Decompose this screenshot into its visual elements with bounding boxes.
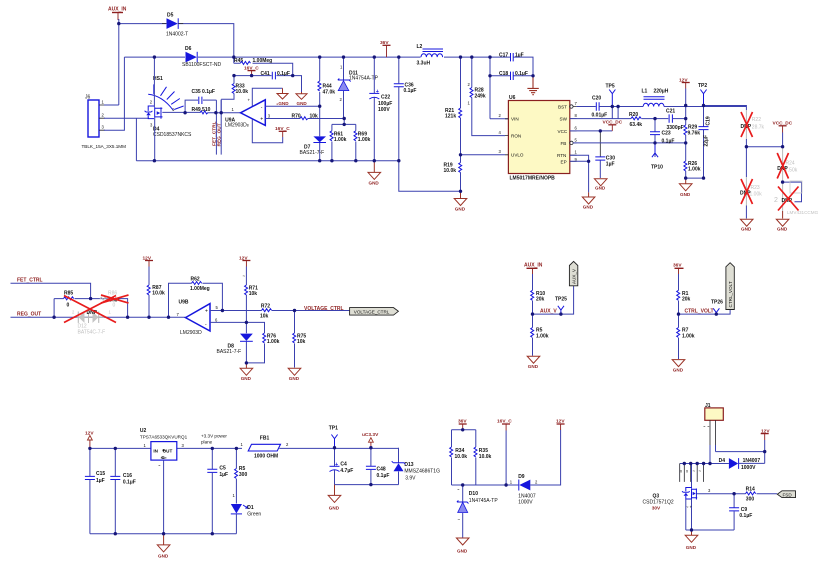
zener D13 bbox=[392, 448, 440, 485]
ground earth (C17/C18) bbox=[527, 76, 538, 95]
zener D11 bbox=[338, 57, 379, 118]
resistor R70 bbox=[292, 114, 345, 120]
wire FB line bbox=[573, 119, 686, 157]
diode D9 bbox=[510, 430, 561, 506]
svg-text:1: 1 bbox=[109, 309, 112, 314]
svg-text:1.00k: 1.00k bbox=[334, 137, 347, 143]
svg-text:~: ~ bbox=[458, 517, 461, 522]
svg-text:1: 1 bbox=[340, 65, 343, 70]
svg-text:GND: GND bbox=[457, 548, 468, 553]
svg-text:R72: R72 bbox=[261, 303, 270, 309]
capacitor C22 bbox=[369, 57, 392, 161]
svg-text:LM2903D: LM2903D bbox=[180, 330, 202, 336]
resistor R14 bbox=[746, 487, 756, 503]
svg-text:5: 5 bbox=[575, 137, 578, 142]
svg-text:3: 3 bbox=[708, 488, 711, 493]
port tag FSD bbox=[777, 491, 795, 498]
svg-text:2: 2 bbox=[340, 97, 343, 102]
capacitor C9 bbox=[729, 494, 752, 530]
diode D7 bbox=[300, 106, 327, 161]
svg-text:0.01µF: 0.01µF bbox=[592, 113, 608, 119]
svg-text:MMSZ4686T1G: MMSZ4686T1G bbox=[404, 469, 440, 475]
svg-text:9.76k: 9.76k bbox=[688, 130, 701, 136]
svg-text:0.1µF: 0.1µF bbox=[404, 88, 417, 94]
svg-text:+: + bbox=[260, 117, 263, 123]
svg-text:TP1: TP1 bbox=[329, 425, 338, 431]
svg-text:GND: GND bbox=[741, 227, 752, 232]
svg-text:GND: GND bbox=[680, 192, 691, 197]
capacitor C15 bbox=[85, 448, 105, 533]
svg-text:D9: D9 bbox=[518, 474, 525, 480]
resistor R69 bbox=[354, 124, 371, 160]
wire REG_OUT stub bbox=[220, 100, 222, 155]
svg-text:GND: GND bbox=[673, 368, 684, 373]
wire CTRL_VOLT node bbox=[679, 310, 731, 315]
svg-text:+: + bbox=[205, 309, 208, 315]
op-amp U9A LM2903D bbox=[225, 98, 283, 143]
power 16V_C (bottom) bbox=[497, 419, 512, 486]
svg-text:1: 1 bbox=[241, 442, 244, 447]
ground GND (R7) bbox=[672, 360, 685, 373]
power 36V top bbox=[380, 40, 391, 57]
wire FET_CTRL stub bbox=[215, 100, 217, 155]
svg-text:5: 5 bbox=[216, 305, 219, 310]
resistor R76 bbox=[246, 333, 279, 363]
wire U9B pin5 bbox=[210, 310, 262, 312]
svg-text:SW: SW bbox=[560, 116, 568, 121]
ground GND (bottom rail) bbox=[368, 161, 381, 186]
svg-text:C20: C20 bbox=[592, 96, 601, 102]
resistor R85 bbox=[64, 291, 74, 309]
svg-text:1: 1 bbox=[575, 150, 578, 155]
wire LDO gnd rail bbox=[90, 533, 237, 535]
svg-text:4.7µF: 4.7µF bbox=[340, 468, 353, 474]
wire J6 pin2 to gate and GND rail bbox=[104, 118, 149, 161]
svg-text:D1: D1 bbox=[247, 505, 254, 511]
wire D11 bottom to R70/R61/R69 bbox=[332, 119, 356, 125]
svg-text:AUX_IN: AUX_IN bbox=[108, 7, 127, 13]
ferrite bead FB1 bbox=[241, 436, 399, 460]
svg-text:1: 1 bbox=[233, 493, 236, 498]
svg-text:1: 1 bbox=[510, 479, 513, 484]
resistor R71 bbox=[243, 274, 259, 323]
svg-text:CSD17571Q2: CSD17571Q2 bbox=[643, 500, 674, 506]
svg-text:BAS21-7-F: BAS21-7-F bbox=[300, 150, 325, 156]
diode D8 bbox=[217, 322, 253, 363]
wire D4 anode bus / comb bbox=[680, 463, 729, 465]
resistor R10 bbox=[531, 274, 546, 314]
capacitor C35 bbox=[185, 89, 216, 113]
wire R34/R35 parallel box bbox=[452, 430, 507, 485]
svg-text:~ +: ~ + bbox=[686, 505, 693, 510]
text +3.3V power plane bbox=[201, 434, 227, 445]
svg-text:GND: GND bbox=[528, 364, 539, 369]
test point TP2 bbox=[698, 83, 707, 106]
svg-text:GND: GND bbox=[777, 227, 788, 232]
svg-text:D6: D6 bbox=[185, 46, 192, 52]
svg-text:63.4k: 63.4k bbox=[630, 122, 643, 128]
port tag VOLTAGE_CTRL bbox=[350, 308, 399, 316]
port AUX_IN bbox=[108, 7, 127, 21]
capacitor C16 bbox=[110, 448, 135, 533]
svg-text:C4: C4 bbox=[340, 461, 347, 467]
svg-text:REG_OUT: REG_OUT bbox=[216, 123, 222, 146]
svg-text:GND: GND bbox=[686, 545, 697, 550]
svg-text:C41: C41 bbox=[261, 71, 270, 77]
resistor R21 bbox=[445, 57, 462, 155]
svg-text:1.00k: 1.00k bbox=[267, 339, 280, 345]
svg-text:3.3uH: 3.3uH bbox=[417, 60, 431, 66]
wire D6 rail / main 36V rail bbox=[124, 56, 490, 58]
svg-text:GND: GND bbox=[158, 554, 169, 559]
svg-text:0.1µF: 0.1µF bbox=[277, 71, 290, 77]
capacitor C36 bbox=[394, 57, 461, 191]
wire REG_OUT main bbox=[11, 316, 186, 318]
svg-text:GND: GND bbox=[455, 207, 466, 212]
resistor R44 bbox=[318, 57, 335, 106]
wire UVLO to R21 bbox=[461, 154, 506, 156]
op-amp U9B LM2903D bbox=[177, 299, 219, 336]
svg-text:DNP: DNP bbox=[87, 310, 98, 316]
svg-text:₂GND: ₂GND bbox=[276, 101, 289, 106]
power 16V_C bbox=[244, 65, 259, 75]
svg-text:R34: R34 bbox=[455, 448, 464, 454]
svg-text:+3.3V power: +3.3V power bbox=[201, 434, 227, 439]
svg-text:R49,510: R49,510 bbox=[192, 107, 211, 113]
svg-text:C19: C19 bbox=[706, 116, 712, 125]
resistor R75 bbox=[293, 311, 307, 368]
svg-text:x: x bbox=[686, 469, 689, 474]
svg-text:AUX_V: AUX_V bbox=[572, 268, 577, 284]
capacitor C18 bbox=[490, 71, 533, 80]
svg-text:1.00Meg: 1.00Meg bbox=[190, 286, 210, 292]
power uC3.3V bbox=[362, 432, 379, 448]
IC U6 LM5017MRE/NOPB bbox=[499, 95, 578, 182]
svg-text:249k: 249k bbox=[475, 93, 486, 99]
wire U9B pin6 bbox=[210, 322, 265, 333]
power 12V (J1) bbox=[761, 428, 771, 440]
svg-text:R22: R22 bbox=[752, 117, 761, 123]
svg-text:Green: Green bbox=[247, 511, 261, 517]
svg-text:G: G bbox=[161, 455, 165, 460]
connector J6 bbox=[82, 95, 127, 150]
resistor R5 (divider) bbox=[531, 314, 549, 356]
svg-text:8: 8 bbox=[575, 113, 578, 118]
ground GND (D8/R76) bbox=[240, 363, 253, 381]
capacitor C21 bbox=[655, 108, 686, 131]
resistor R7 bbox=[677, 314, 695, 359]
svg-text:R45: R45 bbox=[234, 58, 243, 64]
svg-text:FET_CTRL: FET_CTRL bbox=[17, 278, 43, 284]
svg-text:C16: C16 bbox=[123, 473, 132, 479]
svg-text:R35: R35 bbox=[479, 448, 488, 454]
svg-text:TP25: TP25 bbox=[555, 297, 567, 303]
svg-text:10.0k: 10.0k bbox=[152, 291, 165, 297]
svg-text:1N4007: 1N4007 bbox=[518, 494, 536, 500]
svg-text:IN: IN bbox=[153, 448, 158, 453]
wire Q3 gate line to R14 bbox=[697, 493, 778, 495]
capacitor C30 bbox=[595, 131, 615, 178]
svg-text:TPS7A6533QKVURQ1: TPS7A6533QKVURQ1 bbox=[140, 434, 188, 439]
svg-text:1.00k: 1.00k bbox=[682, 333, 695, 339]
svg-text:TP10: TP10 bbox=[651, 164, 663, 170]
svg-text:10.0k: 10.0k bbox=[236, 89, 249, 95]
svg-text:300: 300 bbox=[746, 496, 755, 502]
wire RST to C20 bbox=[577, 106, 596, 108]
svg-text:FB1: FB1 bbox=[260, 436, 270, 442]
test point TP25 bbox=[555, 297, 567, 315]
svg-text:GND: GND bbox=[369, 181, 380, 186]
svg-text:C35 0.1µF: C35 0.1µF bbox=[192, 89, 215, 95]
svg-text:2: 2 bbox=[72, 309, 75, 314]
svg-text:VCC: VCC bbox=[558, 129, 568, 134]
shunt reference U? LMV431 DNP bbox=[774, 181, 819, 215]
ground GND (C4) bbox=[328, 485, 341, 511]
wire C41 row bbox=[234, 76, 302, 92]
wire R85 branch bbox=[54, 299, 128, 318]
wire AUX_IN vertical to J6 pin1 bbox=[118, 19, 120, 105]
wire J6 pin3 up to rail bbox=[104, 57, 124, 130]
svg-text:C22: C22 bbox=[381, 95, 390, 101]
svg-text:TBLK_15A_3X5.1MM: TBLK_15A_3X5.1MM bbox=[82, 144, 127, 149]
resistor R23 DNP bbox=[740, 177, 762, 206]
test point TP26 bbox=[711, 300, 723, 315]
svg-text:RON: RON bbox=[511, 134, 521, 139]
port tag AUX_V bbox=[569, 261, 577, 285]
svg-text:~: ~ bbox=[707, 424, 710, 429]
svg-text:~: ~ bbox=[243, 274, 246, 279]
svg-text:2: 2 bbox=[535, 479, 538, 484]
svg-text:3: 3 bbox=[102, 125, 105, 130]
svg-text:6: 6 bbox=[215, 318, 218, 323]
power VCC_DC (right) bbox=[773, 121, 793, 147]
svg-text:U2: U2 bbox=[140, 428, 147, 434]
svg-text:+: + bbox=[248, 98, 251, 103]
ground GND (RTN/EP) bbox=[582, 192, 595, 209]
test point TP1 bbox=[329, 425, 338, 447]
capacitor C41 bbox=[261, 71, 290, 79]
svg-text:0.1µF: 0.1µF bbox=[377, 473, 390, 479]
svg-text:30V: 30V bbox=[652, 506, 661, 512]
zener D10 bbox=[457, 485, 498, 538]
wire 12V out to DNP R22 bbox=[704, 106, 783, 219]
power 12V (top right) bbox=[679, 77, 690, 105]
svg-text:220µH: 220µH bbox=[654, 89, 669, 95]
power 16V_C (U9A V+) bbox=[275, 126, 290, 137]
wire SW node verticals bbox=[570, 107, 655, 119]
transistor Q3 CSD17571Q2 bbox=[643, 464, 712, 531]
svg-text:2: 2 bbox=[499, 113, 502, 118]
svg-text:1.00Meg: 1.00Meg bbox=[253, 58, 273, 64]
svg-text:~: ~ bbox=[699, 469, 702, 474]
wire rail to R45 bbox=[234, 57, 293, 76]
svg-text:1: 1 bbox=[232, 107, 235, 112]
diode D6 bbox=[182, 46, 221, 68]
svg-text:D13: D13 bbox=[404, 462, 413, 468]
svg-text:2: 2 bbox=[102, 113, 105, 118]
port tag CTRL_VOLT bbox=[726, 263, 734, 310]
svg-text:100V: 100V bbox=[378, 107, 390, 113]
svg-text:20k: 20k bbox=[536, 297, 545, 303]
wire FET_CTRL bbox=[11, 283, 91, 298]
svg-text:R23: R23 bbox=[751, 185, 760, 191]
svg-text:6: 6 bbox=[575, 125, 578, 130]
wire D5 rail bbox=[119, 24, 234, 58]
heatsink HS1 bbox=[148, 76, 183, 110]
svg-text:D4: D4 bbox=[719, 458, 726, 464]
svg-text:10.0k: 10.0k bbox=[455, 454, 468, 460]
ground GND (LDO) bbox=[157, 534, 170, 559]
svg-text:20k: 20k bbox=[682, 297, 691, 303]
svg-text:GND: GND bbox=[289, 376, 300, 381]
svg-text:4: 4 bbox=[499, 130, 502, 135]
svg-text:~: ~ bbox=[703, 424, 706, 429]
svg-text:2: 2 bbox=[150, 99, 153, 104]
resistor R33 bbox=[221, 76, 248, 100]
svg-text:1000V: 1000V bbox=[741, 465, 756, 471]
transistor Q4 (D4 CSD18537NKCS) bbox=[145, 57, 192, 138]
svg-text:22µF: 22µF bbox=[704, 135, 710, 147]
capacitor C5 bbox=[207, 448, 228, 533]
svg-text:1µF: 1µF bbox=[219, 472, 228, 478]
wire U9A pin3 to R70 bbox=[265, 118, 300, 120]
svg-text:GND: GND bbox=[297, 101, 308, 106]
svg-text:1: 1 bbox=[144, 443, 147, 448]
power 12V (D9) bbox=[556, 419, 565, 431]
ground GND (R23) bbox=[740, 219, 753, 231]
power 36V (mid) bbox=[673, 263, 684, 275]
wire LDO input rail bbox=[90, 447, 242, 449]
svg-text:1: 1 bbox=[102, 100, 105, 105]
port AUX_IN (mid) bbox=[524, 263, 543, 275]
wire VCC / VCC_DC label bbox=[570, 120, 623, 131]
svg-text:BAT54C-7-F: BAT54C-7-F bbox=[78, 329, 106, 335]
svg-text:CTRL_VOLT: CTRL_VOLT bbox=[728, 281, 733, 307]
capacitor C17 bbox=[490, 53, 533, 76]
svg-text:plane: plane bbox=[201, 440, 213, 445]
resistor R28 bbox=[468, 57, 506, 136]
ground GND (R5) bbox=[527, 356, 540, 369]
power 36V (bottom) bbox=[458, 419, 467, 430]
wire AUX_V node bbox=[533, 286, 574, 314]
wire C4/C48/D13 bottom bbox=[335, 484, 399, 486]
resistor R20 bbox=[629, 112, 642, 128]
wire RTN/EP to GND bbox=[570, 155, 589, 192]
svg-text:10k: 10k bbox=[260, 314, 269, 320]
wire GND rail bottom (left) bbox=[136, 160, 398, 162]
svg-text:1: 1 bbox=[468, 101, 471, 106]
svg-text:2: 2 bbox=[468, 82, 471, 87]
svg-text:R20: R20 bbox=[629, 112, 638, 118]
svg-text:1000 OHM: 1000 OHM bbox=[254, 453, 278, 459]
svg-text:VOLTAGE_CTRL: VOLTAGE_CTRL bbox=[304, 306, 344, 312]
svg-text:1.00k: 1.00k bbox=[358, 137, 371, 143]
svg-text:TP2: TP2 bbox=[698, 83, 707, 89]
svg-text:1.00k: 1.00k bbox=[750, 192, 763, 198]
ground GND (R75) bbox=[288, 368, 301, 381]
svg-text:x: x bbox=[680, 469, 683, 474]
svg-text:C23: C23 bbox=[662, 131, 671, 137]
svg-text:3: 3 bbox=[182, 443, 185, 448]
svg-text:CSD18537NKCS: CSD18537NKCS bbox=[153, 132, 192, 138]
svg-text:R70: R70 bbox=[292, 114, 301, 120]
ground GND (C41) bbox=[296, 92, 307, 106]
ground GND (R19) bbox=[454, 191, 467, 211]
drain comb Q3 bbox=[680, 464, 704, 482]
inductor L1 bbox=[618, 89, 746, 107]
svg-text:1000V: 1000V bbox=[518, 500, 533, 506]
svg-text:TP5: TP5 bbox=[606, 84, 615, 90]
svg-text:C48: C48 bbox=[377, 467, 386, 473]
svg-text:1N4745A-TP: 1N4745A-TP bbox=[469, 498, 499, 504]
wire U9A top input to R44/D7 node bbox=[265, 105, 319, 107]
resistor R24 DNP bbox=[777, 147, 798, 182]
svg-text:2: 2 bbox=[774, 197, 778, 204]
svg-text:10k: 10k bbox=[297, 339, 306, 345]
svg-text:1N4002-T: 1N4002-T bbox=[166, 32, 188, 38]
svg-text:L1: L1 bbox=[642, 89, 648, 95]
resistor R87 bbox=[147, 285, 165, 317]
svg-text:C15: C15 bbox=[96, 471, 105, 477]
capacitor C23 bbox=[650, 131, 674, 145]
svg-text:U9B: U9B bbox=[179, 299, 189, 305]
svg-text:EP: EP bbox=[561, 159, 567, 164]
svg-text:VIN: VIN bbox=[511, 117, 519, 122]
resistor R26 bbox=[684, 143, 701, 178]
svg-text:3: 3 bbox=[268, 113, 271, 118]
svg-text:C9: C9 bbox=[741, 507, 748, 513]
svg-text:121k: 121k bbox=[445, 113, 456, 119]
svg-text:BST: BST bbox=[558, 105, 567, 110]
ground 2GND (U9A V-) bbox=[252, 88, 289, 106]
capacitor C20 bbox=[592, 96, 613, 119]
wire J6 pin1 bbox=[104, 104, 119, 106]
resistor R1 bbox=[677, 274, 691, 314]
svg-text:2: 2 bbox=[286, 442, 289, 447]
svg-text:RTN: RTN bbox=[557, 153, 566, 158]
svg-text:0: 0 bbox=[113, 303, 116, 309]
inductor L2 bbox=[417, 44, 444, 66]
svg-text:REG_OUT: REG_OUT bbox=[17, 311, 41, 317]
svg-text:0: 0 bbox=[67, 303, 70, 309]
wire R26/C19 bottom bbox=[686, 177, 704, 179]
svg-text:47.0k: 47.0k bbox=[323, 89, 336, 95]
svg-text:1µF: 1µF bbox=[96, 478, 105, 484]
svg-text:D10: D10 bbox=[469, 491, 478, 497]
svg-text:UVLO: UVLO bbox=[511, 153, 524, 158]
wire J1 right pin to 12V bbox=[716, 440, 765, 463]
resistor R5 (LED) bbox=[233, 448, 248, 503]
svg-text:J6: J6 bbox=[85, 95, 91, 101]
svg-text:uC3.3V: uC3.3V bbox=[362, 432, 379, 438]
svg-text:7: 7 bbox=[575, 101, 578, 106]
diode D4 bbox=[719, 458, 765, 471]
power 12V (R87) bbox=[143, 255, 154, 285]
svg-text:3.9V: 3.9V bbox=[405, 475, 416, 481]
svg-text:GND: GND bbox=[583, 205, 594, 210]
svg-text:1.00k: 1.00k bbox=[536, 333, 549, 339]
capacitor C4 bbox=[330, 448, 354, 485]
svg-text:3300pF: 3300pF bbox=[667, 125, 684, 131]
resistor R61 bbox=[330, 124, 347, 160]
svg-text:~: ~ bbox=[158, 463, 161, 468]
svg-text:+: + bbox=[335, 462, 338, 468]
svg-text:~: ~ bbox=[693, 469, 696, 474]
svg-text:3: 3 bbox=[499, 149, 502, 154]
svg-text:1µF: 1µF bbox=[606, 162, 615, 168]
diode D5 bbox=[162, 13, 188, 38]
wire U2 G to gnd rail bbox=[163, 460, 165, 534]
